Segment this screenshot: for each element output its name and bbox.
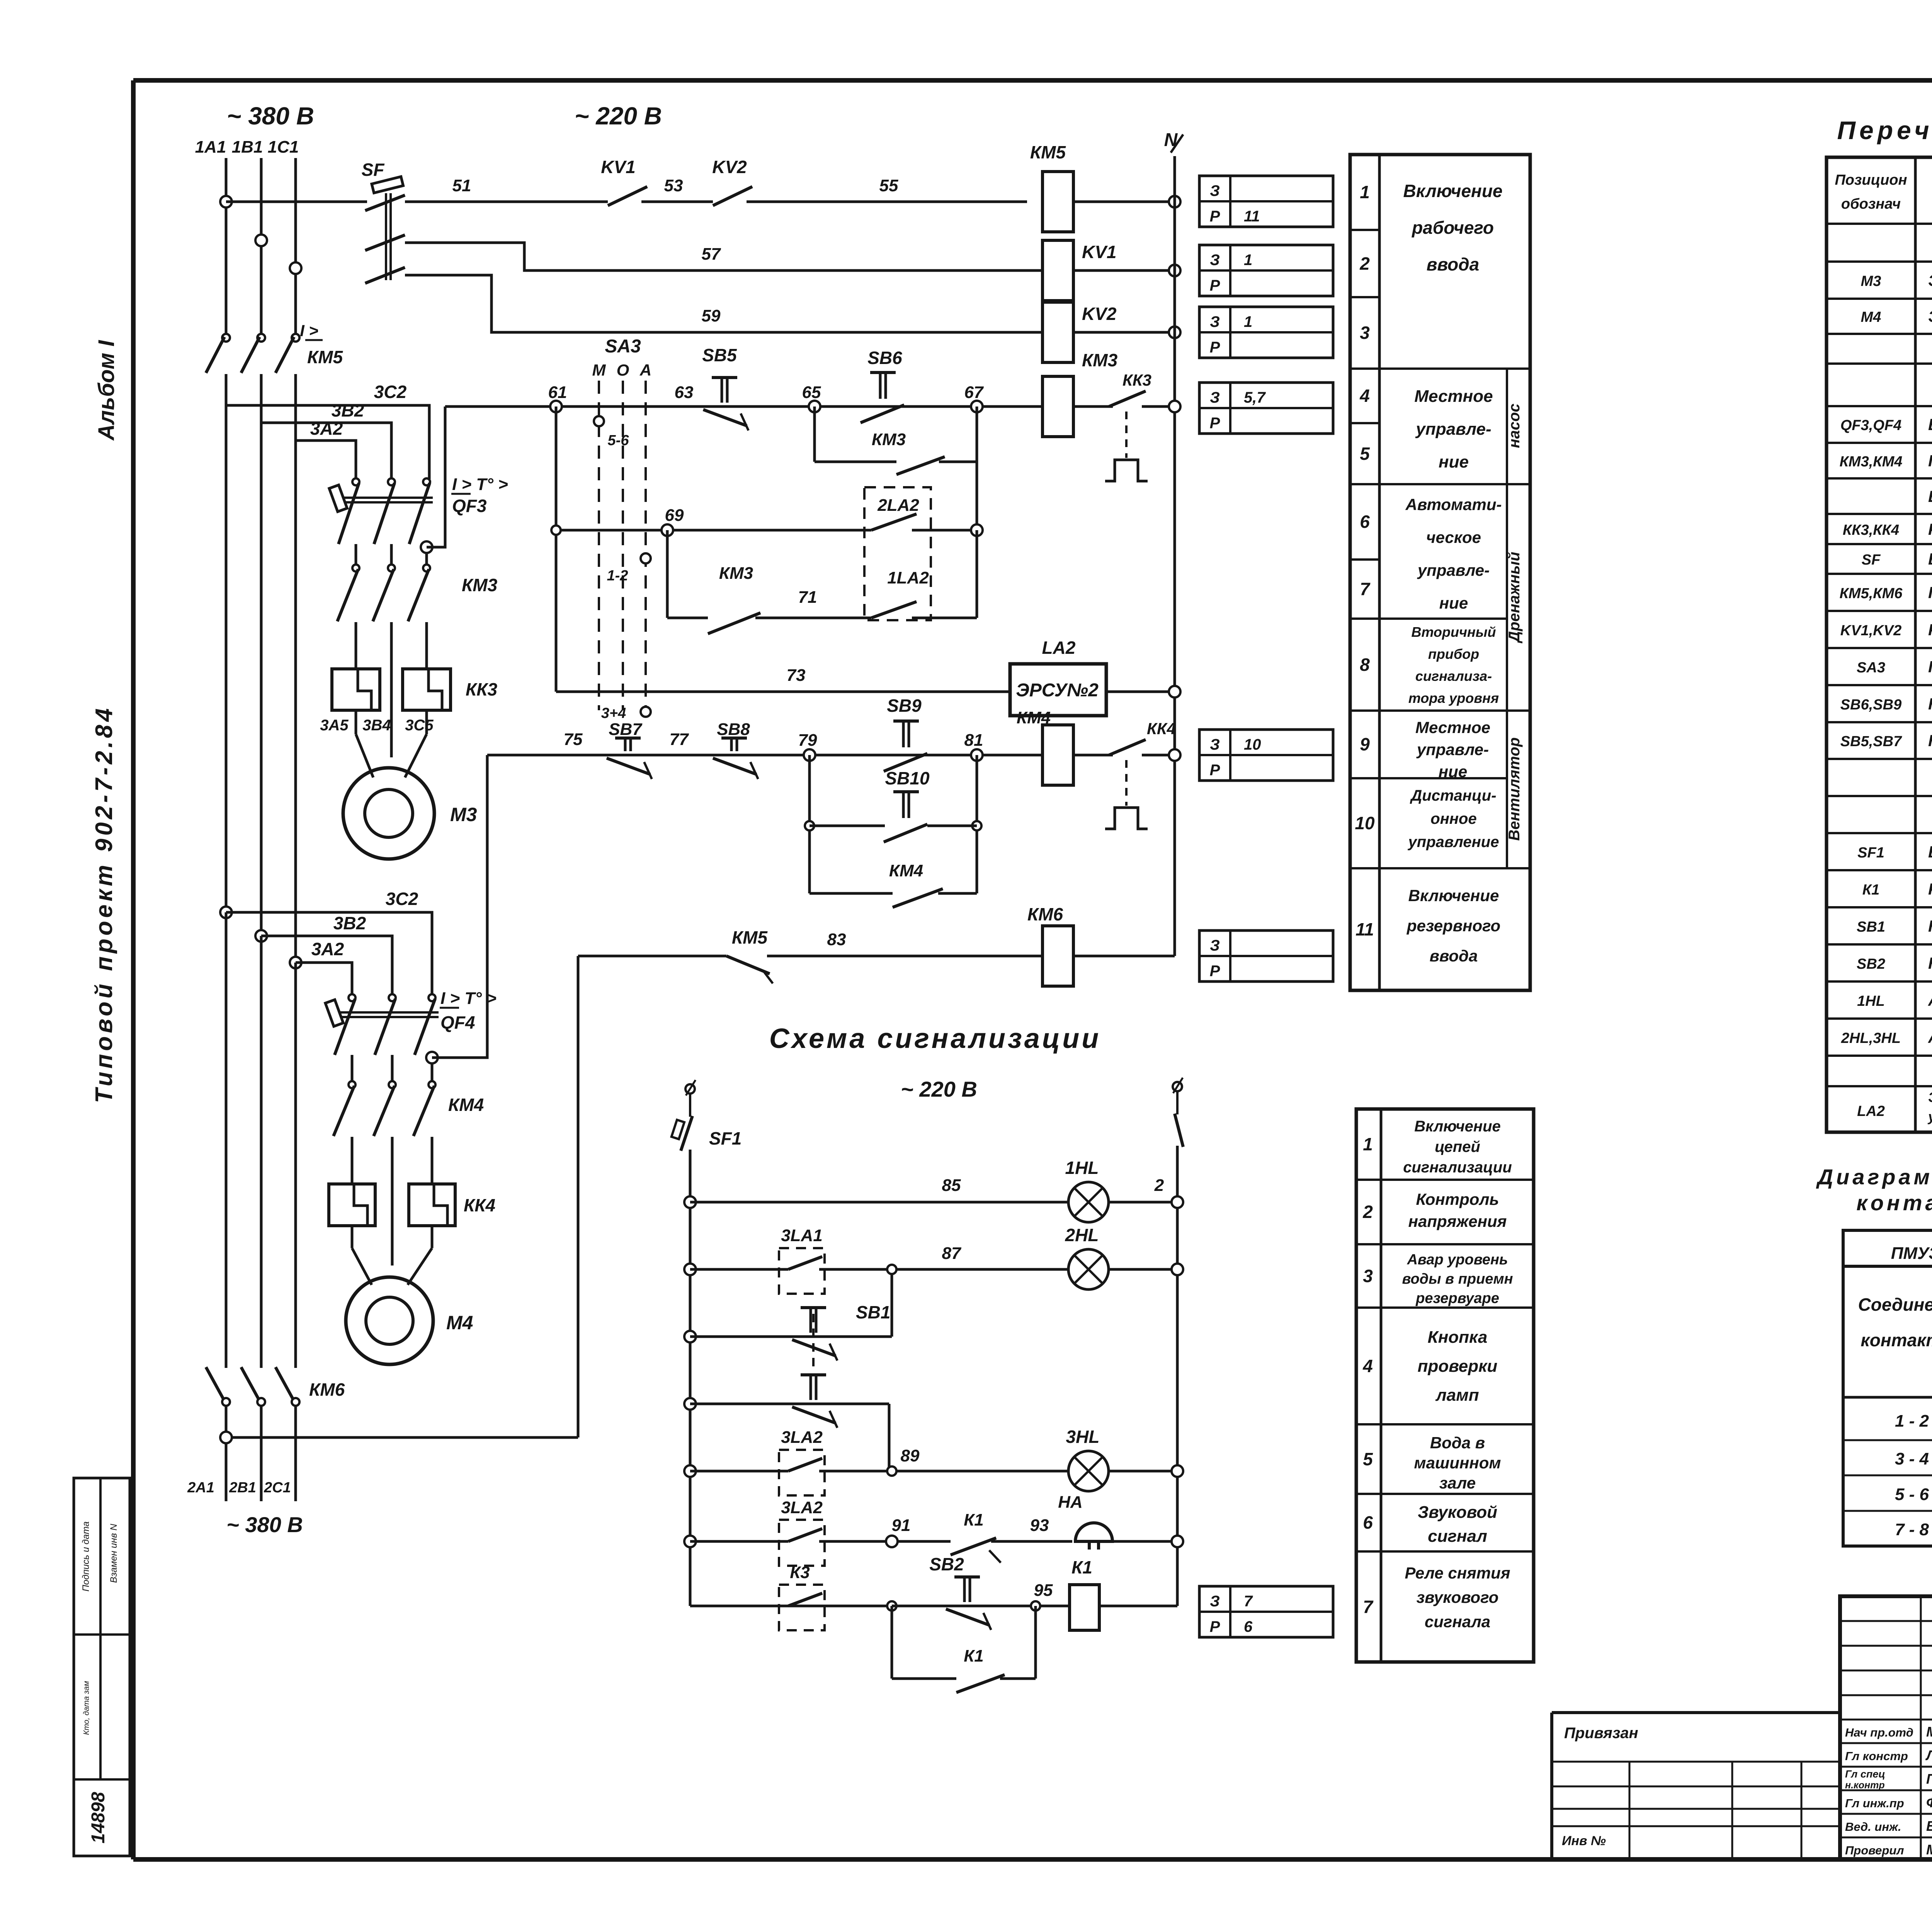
svg-text:3А2: 3А2 — [310, 418, 343, 439]
wire KV2 coil to N — [1073, 331, 1175, 334]
wire 89 — [819, 1470, 1068, 1473]
node N row4 — [1169, 401, 1180, 412]
wire phase C vertical top — [294, 158, 297, 335]
wire KM5 coil to N — [1073, 201, 1175, 203]
wire row 83 (reserve input KM6) — [578, 955, 726, 958]
svg-text:прибор: прибор — [1428, 646, 1479, 662]
svg-text:КК4: КК4 — [464, 1195, 495, 1215]
svg-text:Гл констр: Гл констр — [1845, 1749, 1908, 1763]
svg-text:KV2: KV2 — [1082, 304, 1117, 324]
node signal row4 — [684, 1398, 696, 1410]
svg-text:59: 59 — [702, 306, 721, 325]
contactor coil KM6 — [1043, 926, 1073, 986]
wire phase A vertical top — [225, 158, 228, 335]
wire QF4 output to fan control rail — [432, 755, 487, 1058]
svg-text:75: 75 — [564, 730, 583, 749]
svg-text:SF: SF — [1862, 552, 1881, 568]
svg-text:85: 85 — [942, 1176, 961, 1195]
node row1 tap — [220, 196, 232, 208]
node right row6 — [1172, 1536, 1183, 1547]
title block — [1840, 1596, 1932, 1859]
svg-text:резервуаре: резервуаре — [1415, 1290, 1499, 1306]
svg-text:3LA1: 3LA1 — [781, 1226, 823, 1245]
node N row 73 — [1169, 686, 1180, 697]
wire reserve bus riser — [577, 956, 580, 1437]
relay coil K1 — [1070, 1585, 1099, 1630]
svg-text:ЭРСУ№2: ЭРСУ№2 — [1016, 680, 1099, 701]
node 3C2 lower tap — [220, 907, 232, 918]
manual return symbol KK3 — [1105, 460, 1148, 481]
svg-text:1А1: 1А1 — [195, 138, 226, 156]
contactor KM4 main contacts — [349, 1081, 355, 1088]
node 61 — [550, 401, 562, 412]
control left rail 61..73 — [555, 407, 558, 692]
ganged link SB1 — [812, 1314, 815, 1371]
svg-text:Авар уровень: Авар уровень — [1406, 1252, 1508, 1268]
svg-text:1: 1 — [1363, 1134, 1373, 1154]
svg-text:8: 8 — [1360, 655, 1370, 675]
svg-text:Пускатель U ~ 220В: Пускатель U ~ 220В — [1928, 452, 1932, 470]
svg-text:рабочего: рабочего — [1411, 218, 1494, 238]
manual return symbol KK4 — [1105, 808, 1148, 829]
svg-text:2: 2 — [1154, 1176, 1164, 1195]
svg-text:А: А — [639, 361, 651, 379]
svg-text:ческое: ческое — [1426, 528, 1481, 546]
svg-text:N: N — [1164, 130, 1178, 150]
svg-text:10: 10 — [1355, 813, 1375, 833]
svg-text:1: 1 — [1244, 313, 1252, 330]
svg-text:SB8: SB8 — [717, 720, 750, 739]
cross-ref table row11 — [1199, 930, 1333, 981]
svg-text:Реле снятия: Реле снятия — [1405, 1564, 1510, 1582]
node 2LA2 to KM3 aux — [971, 524, 983, 536]
svg-text:КМ6: КМ6 — [1027, 904, 1063, 924]
pushbutton SB6 (NO) — [861, 373, 904, 423]
svg-text:2HL,3HL: 2HL,3HL — [1841, 1030, 1901, 1046]
thermal contact KK3 (NC) in KM3 circuit — [1073, 405, 1113, 408]
svg-text:КК3,КК4: КК3,КК4 — [1843, 522, 1899, 538]
signal right rail — [1173, 1082, 1182, 1091]
wire 3A2 upper tap — [296, 441, 356, 479]
node signal row6 — [684, 1536, 696, 1547]
svg-text:О: О — [617, 361, 629, 379]
svg-text:I >: I > — [300, 321, 318, 340]
svg-text:тора уровня: тора уровня — [1408, 690, 1499, 706]
svg-text:управле-: управле- — [1417, 561, 1490, 579]
svg-text:контактов: контактов — [1861, 1330, 1932, 1350]
dashed box 3LA2 (row5) — [779, 1450, 825, 1495]
node right row2 — [1172, 1264, 1183, 1275]
wire 55 — [747, 201, 1027, 203]
svg-text:SB1: SB1 — [1857, 919, 1885, 935]
svg-text:ние: ние — [1439, 762, 1467, 781]
wire middle phase to M3 — [390, 622, 393, 757]
svg-text:Реле: Реле — [1928, 621, 1932, 639]
node 3B2 lower tap — [255, 930, 267, 942]
svg-text:KV2: KV2 — [712, 157, 747, 177]
svg-text:11: 11 — [1244, 208, 1260, 225]
node right row5 — [1172, 1465, 1183, 1477]
svg-text:Электрический сигнализатор: Электрический сигнализатор — [1928, 1089, 1932, 1105]
node signal row3 — [684, 1331, 696, 1342]
svg-text:89: 89 — [901, 1446, 920, 1465]
svg-text:Гл спец: Гл спец — [1845, 1768, 1885, 1780]
device box ERSU no.2 — [1010, 664, 1106, 716]
svg-text:ламп: ламп — [1435, 1386, 1479, 1405]
svg-text:З: З — [1210, 736, 1220, 753]
svg-text:3А2: 3А2 — [311, 939, 344, 959]
svg-text:Малышев: Малышев — [1926, 1842, 1932, 1857]
wire 85 — [690, 1201, 1068, 1204]
svg-text:КМ5,КМ6: КМ5,КМ6 — [1840, 585, 1903, 602]
svg-text:1: 1 — [1360, 182, 1370, 202]
svg-text:SB5,SB7: SB5,SB7 — [1840, 733, 1902, 750]
svg-text:71: 71 — [798, 588, 817, 607]
wire 3C2 upper tap — [226, 405, 429, 479]
svg-text:1HL: 1HL — [1065, 1158, 1099, 1178]
svg-text:воды в приемн: воды в приемн — [1402, 1271, 1513, 1287]
svg-text:ввода: ввода — [1430, 947, 1478, 965]
svg-text:3С5: 3С5 — [405, 717, 434, 734]
svg-text:14898: 14898 — [88, 1792, 109, 1844]
svg-text:Малесов: Малесов — [1926, 1724, 1932, 1740]
cross-ref table signal row7 — [1199, 1586, 1333, 1637]
svg-text:Р: Р — [1210, 762, 1220, 779]
node QF4 output to control — [426, 1052, 438, 1063]
svg-text:KV1: KV1 — [601, 157, 635, 177]
node N row9 — [1169, 749, 1180, 761]
svg-text:2LA2: 2LA2 — [877, 496, 919, 515]
node signal row2 — [684, 1264, 696, 1275]
svg-text:Выключатель Iр = 4А: Выключатель Iр = 4А — [1928, 415, 1932, 434]
node 81 — [971, 749, 983, 761]
wire row7 — [690, 1605, 892, 1607]
svg-text:3: 3 — [1363, 1266, 1373, 1286]
svg-text:ние: ние — [1439, 452, 1469, 471]
svg-text:сигнал: сигнал — [1428, 1527, 1487, 1546]
svg-text:Вода в: Вода в — [1430, 1434, 1485, 1452]
svg-text:Реле тепловое: Реле тепловое — [1928, 520, 1932, 538]
wire row 73 to level device LA2 — [556, 691, 1010, 693]
svg-text:2А1: 2А1 — [187, 1480, 214, 1496]
svg-text:Включение: Включение — [1414, 1118, 1501, 1135]
svg-text:6: 6 — [1360, 512, 1370, 532]
svg-text:~ 220 В: ~ 220 В — [901, 1077, 977, 1101]
svg-text:уровня ~220В , 15ВА: уровня ~220В , 15ВА — [1927, 1109, 1932, 1124]
svg-text:З: З — [1210, 252, 1220, 269]
relay coil KV1 — [1043, 240, 1073, 301]
svg-text:SF: SF — [362, 160, 385, 180]
relay contact KV1 (NO) — [608, 187, 647, 206]
svg-text:SB2: SB2 — [1857, 956, 1885, 972]
svg-text:Вторичный: Вторичный — [1412, 624, 1496, 640]
signal left rail + switch SF1 — [685, 1084, 695, 1094]
svg-text:Взамен инв N: Взамен инв N — [109, 1524, 119, 1583]
svg-text:ние: ние — [1439, 594, 1468, 612]
cross-ref table row1 — [1199, 176, 1333, 227]
svg-text:93: 93 — [1030, 1516, 1049, 1535]
svg-text:КМ3: КМ3 — [462, 575, 498, 595]
node N row2 — [1169, 265, 1180, 276]
pushbutton SB5 (NC) — [703, 378, 748, 430]
svg-text:ПМУЗ - 12С - 2001: ПМУЗ - 12С - 2001 — [1891, 1244, 1932, 1263]
svg-text:3С2: 3С2 — [374, 382, 407, 402]
svg-text:5-6: 5-6 — [608, 432, 629, 449]
wire phase A vertical mid — [225, 405, 228, 912]
svg-text:87: 87 — [942, 1244, 962, 1263]
svg-text:Р: Р — [1210, 415, 1220, 432]
svg-text:4: 4 — [1362, 1356, 1373, 1376]
svg-text:Типовой проект 902-7-2.84: Типовой проект 902-7-2.84 — [91, 705, 117, 1103]
svg-text:6: 6 — [1363, 1512, 1373, 1533]
svg-text:управление: управление — [1408, 833, 1499, 850]
svg-text:КМ4: КМ4 — [1017, 708, 1051, 727]
svg-text:2: 2 — [1359, 253, 1370, 274]
wire 51 — [405, 201, 608, 203]
contact KM5 (NC) — [726, 956, 770, 974]
dashed box 3LA2 (row6) — [779, 1520, 825, 1566]
svg-text:67: 67 — [964, 383, 984, 402]
svg-text:51: 51 — [452, 176, 471, 195]
contact 3LA2 — [788, 1458, 822, 1471]
svg-text:Автомати-: Автомати- — [1405, 495, 1502, 514]
contactor coil KM4 — [1043, 725, 1073, 785]
wire 3A2 lower — [296, 963, 352, 995]
wire phase A vertical low — [225, 912, 228, 1368]
svg-text:КК4: КК4 — [1147, 720, 1176, 738]
svg-text:Перечень элементов принципиа: Перечень элементов принципиальной схемы — [1837, 116, 1932, 145]
wire N rail — [1173, 156, 1176, 956]
drawing frame — [133, 78, 1932, 83]
svg-text:Арматура: Арматура — [1928, 991, 1932, 1009]
circuit breaker QF3 — [352, 478, 359, 485]
lamp 2HL — [1068, 1249, 1109, 1289]
svg-text:Выключатель Iр = 1,6А: Выключатель Iр = 1,6А — [1928, 843, 1932, 861]
node 95 — [1031, 1601, 1040, 1611]
svg-text:1LA2: 1LA2 — [887, 568, 929, 587]
svg-text:Вед. инж.: Вед. инж. — [1845, 1820, 1901, 1834]
lamp 1HL — [1068, 1182, 1109, 1222]
privyazan strip — [1552, 1711, 1840, 1714]
node N row3 — [1169, 327, 1180, 338]
svg-text:10: 10 — [1244, 736, 1261, 753]
contact K1 (NC) — [951, 1538, 996, 1555]
svg-text:3А5: 3А5 — [320, 717, 349, 734]
svg-text:2В1: 2В1 — [229, 1480, 256, 1496]
wire SB1 branch — [891, 1269, 893, 1337]
svg-text:Диаграмма замыкания: Диаграмма замыкания — [1816, 1165, 1932, 1189]
svg-text:проверки: проверки — [1418, 1357, 1498, 1376]
svg-text:КМ4: КМ4 — [448, 1095, 484, 1115]
svg-text:3В4: 3В4 — [362, 717, 391, 734]
svg-text:5: 5 — [1360, 444, 1370, 464]
svg-text:Позицион: Позицион — [1835, 172, 1907, 188]
SA3 contact 3-4 marker — [641, 707, 651, 717]
node QF3 output to control — [421, 541, 432, 553]
svg-text:З: З — [1210, 182, 1220, 199]
wire phase B vertical top — [260, 158, 263, 335]
svg-text:SB1: SB1 — [856, 1302, 890, 1322]
node signal row5 — [684, 1465, 696, 1477]
wire reserve bottom bus — [226, 1436, 578, 1439]
contactor KM3 main contacts — [352, 565, 359, 572]
cross-ref table row3 — [1199, 307, 1333, 358]
side rotated labels — [1506, 369, 1508, 868]
svg-text:КМ5: КМ5 — [732, 927, 768, 947]
svg-text:Электродвигатель ~380В; 0,75 к: Электродвигатель ~380В; 0,75 кВт — [1928, 307, 1932, 325]
svg-text:Дренажный: Дренажный — [1506, 552, 1523, 643]
svg-text:Кнопка: Кнопка — [1428, 1328, 1488, 1347]
contactor KM5 main contacts — [222, 334, 230, 342]
SA3 table body — [1843, 1266, 1932, 1546]
svg-text:К1: К1 — [1071, 1557, 1092, 1577]
wire 3B2 lower — [261, 936, 392, 995]
svg-text:Р: Р — [1210, 339, 1220, 356]
svg-text:обознач: обознач — [1841, 196, 1901, 212]
svg-text:Реле: Реле — [1928, 880, 1932, 898]
wire row 75-77-79-81 (fan local control) — [487, 754, 1043, 757]
svg-text:7: 7 — [1360, 579, 1371, 599]
svg-text:Подпись и дата: Подпись и дата — [81, 1521, 91, 1592]
contact K1 self-hold — [891, 1606, 893, 1679]
svg-text:5: 5 — [1363, 1449, 1373, 1469]
svg-text:К1: К1 — [1862, 882, 1880, 898]
svg-text:53: 53 — [664, 176, 683, 195]
contact 3LA2 row6 — [788, 1529, 822, 1541]
svg-text:НА: НА — [1058, 1493, 1083, 1512]
cross-ref table row4 — [1199, 383, 1333, 434]
node row3 tap — [290, 262, 301, 274]
svg-text:69: 69 — [665, 506, 684, 525]
contact 2LA2 — [871, 514, 917, 530]
svg-text:Фомин: Фомин — [1926, 1795, 1932, 1810]
dashed box 3LA1 — [779, 1248, 825, 1294]
svg-text:К3: К3 — [790, 1563, 810, 1582]
wire 3C2 lower — [226, 912, 432, 995]
wire row 61-63-65-67 (local control pump) — [445, 405, 1043, 408]
svg-text:Кто, дата зам: Кто, дата зам — [82, 1681, 91, 1735]
svg-text:KV1: KV1 — [1082, 242, 1116, 262]
svg-text:Кнопка исполн 4 толкат черн: Кнопка исполн 4 толкат черн — [1928, 695, 1932, 713]
svg-text:Местное: Местное — [1414, 387, 1493, 406]
svg-text:2: 2 — [1362, 1202, 1373, 1222]
svg-text:н.контр: н.контр — [1845, 1780, 1885, 1791]
wire test branch down — [888, 1404, 891, 1471]
svg-text:КК3: КК3 — [1122, 371, 1151, 389]
function table main schematic — [1350, 155, 1530, 990]
wire 3B2 upper tap — [261, 423, 391, 479]
svg-text:2HL: 2HL — [1065, 1225, 1099, 1245]
svg-text:З: З — [1210, 313, 1220, 330]
svg-text:6: 6 — [1244, 1618, 1253, 1635]
svg-text:насос: насос — [1506, 403, 1523, 448]
svg-text:KV1,KV2: KV1,KV2 — [1840, 623, 1901, 639]
svg-text:SA3: SA3 — [605, 336, 641, 357]
contact 3LA1 — [788, 1257, 822, 1269]
svg-text:7: 7 — [1244, 1593, 1253, 1610]
thermal relay KK4 heaters — [329, 1184, 375, 1226]
svg-text:З: З — [1210, 937, 1220, 954]
SA3 contact 5-6 marker — [594, 416, 604, 426]
node 91 — [886, 1536, 898, 1547]
svg-text:онное: онное — [1430, 810, 1476, 827]
svg-text:КМ3: КМ3 — [1082, 350, 1118, 370]
svg-text:М: М — [592, 361, 606, 379]
svg-text:QF4: QF4 — [440, 1012, 475, 1032]
svg-text:Выключатель Iр = 1,6А: Выключатель Iр = 1,6А — [1928, 550, 1932, 568]
svg-text:7 - 8: 7 - 8 — [1895, 1520, 1929, 1539]
svg-text:Инв №: Инв № — [1562, 1834, 1606, 1848]
node N row1 — [1169, 196, 1180, 208]
svg-text:Нач пр.отд: Нач пр.отд — [1845, 1726, 1913, 1739]
svg-text:81: 81 — [964, 731, 983, 750]
svg-text:КК3: КК3 — [466, 679, 498, 699]
svg-text:звукового: звукового — [1417, 1588, 1499, 1606]
svg-text:Местное: Местное — [1415, 718, 1490, 737]
svg-text:К1: К1 — [964, 1510, 984, 1529]
node row2 tap — [255, 235, 267, 246]
svg-text:3В2: 3В2 — [332, 400, 364, 420]
dashed box LA2 sensors — [864, 487, 931, 620]
svg-text:3В2: 3В2 — [333, 913, 366, 933]
svg-text:3 - 4: 3 - 4 — [1895, 1449, 1929, 1468]
svg-text:3LA2: 3LA2 — [781, 1428, 823, 1447]
svg-text:Контроль: Контроль — [1416, 1190, 1499, 1208]
svg-text:SF1: SF1 — [709, 1128, 742, 1148]
svg-text:I > T° >: I > T° > — [452, 475, 508, 494]
svg-text:83: 83 — [827, 930, 846, 949]
svg-text:3: 3 — [1360, 323, 1370, 343]
relay contact KV2 (NO) — [713, 187, 752, 206]
svg-text:З: З — [1210, 389, 1220, 406]
pushbutton SB2 (NC) — [946, 1577, 991, 1630]
svg-text:1-2: 1-2 — [607, 568, 628, 584]
svg-text:3LA2: 3LA2 — [781, 1498, 823, 1517]
svg-text:управле-: управле- — [1416, 740, 1489, 759]
svg-text:Р: Р — [1210, 1618, 1220, 1635]
svg-text:3С2: 3С2 — [386, 889, 418, 909]
contact KM3 self-hold — [813, 407, 816, 462]
svg-text:2С1: 2С1 — [264, 1480, 291, 1496]
svg-text:~ 380 В: ~ 380 В — [227, 102, 314, 130]
pushbutton SB1 (NC) — [792, 1308, 837, 1361]
svg-text:Электродвигатель ~380В , 1,1 к: Электродвигатель ~380В , 1,1 кВт — [1928, 271, 1932, 289]
motor M3 — [343, 768, 434, 859]
svg-text:QF3: QF3 — [452, 496, 487, 516]
svg-text:Пронин: Пронин — [1926, 1771, 1932, 1787]
svg-text:Арматура: Арматура — [1928, 1028, 1932, 1046]
svg-text:SB10: SB10 — [885, 768, 929, 788]
function table signal schematic — [1356, 1109, 1534, 1662]
svg-text:машинном: машинном — [1414, 1454, 1501, 1472]
contact KM4 self-hold — [810, 892, 893, 895]
svg-text:ввода: ввода — [1427, 254, 1480, 274]
box PMUZ-12S-2001 — [1843, 1230, 1932, 1266]
thermal contact KK4 (NC) in KM4 circuit — [1073, 754, 1113, 757]
svg-text:65: 65 — [802, 383, 821, 402]
svg-text:Вентилятор: Вентилятор — [1506, 737, 1523, 841]
svg-text:79: 79 — [798, 731, 817, 750]
node signal row1 — [684, 1196, 696, 1208]
svg-text:11: 11 — [1355, 919, 1374, 939]
wire phase C vertical low — [294, 963, 297, 1368]
svg-text:КМ5: КМ5 — [307, 347, 344, 367]
svg-text:LA2: LA2 — [1857, 1103, 1885, 1119]
contactor coil KM3 — [1043, 376, 1073, 437]
svg-text:SF1: SF1 — [1857, 845, 1884, 861]
wire phase B vertical low — [260, 936, 263, 1368]
svg-text:1В1: 1В1 — [232, 138, 263, 156]
